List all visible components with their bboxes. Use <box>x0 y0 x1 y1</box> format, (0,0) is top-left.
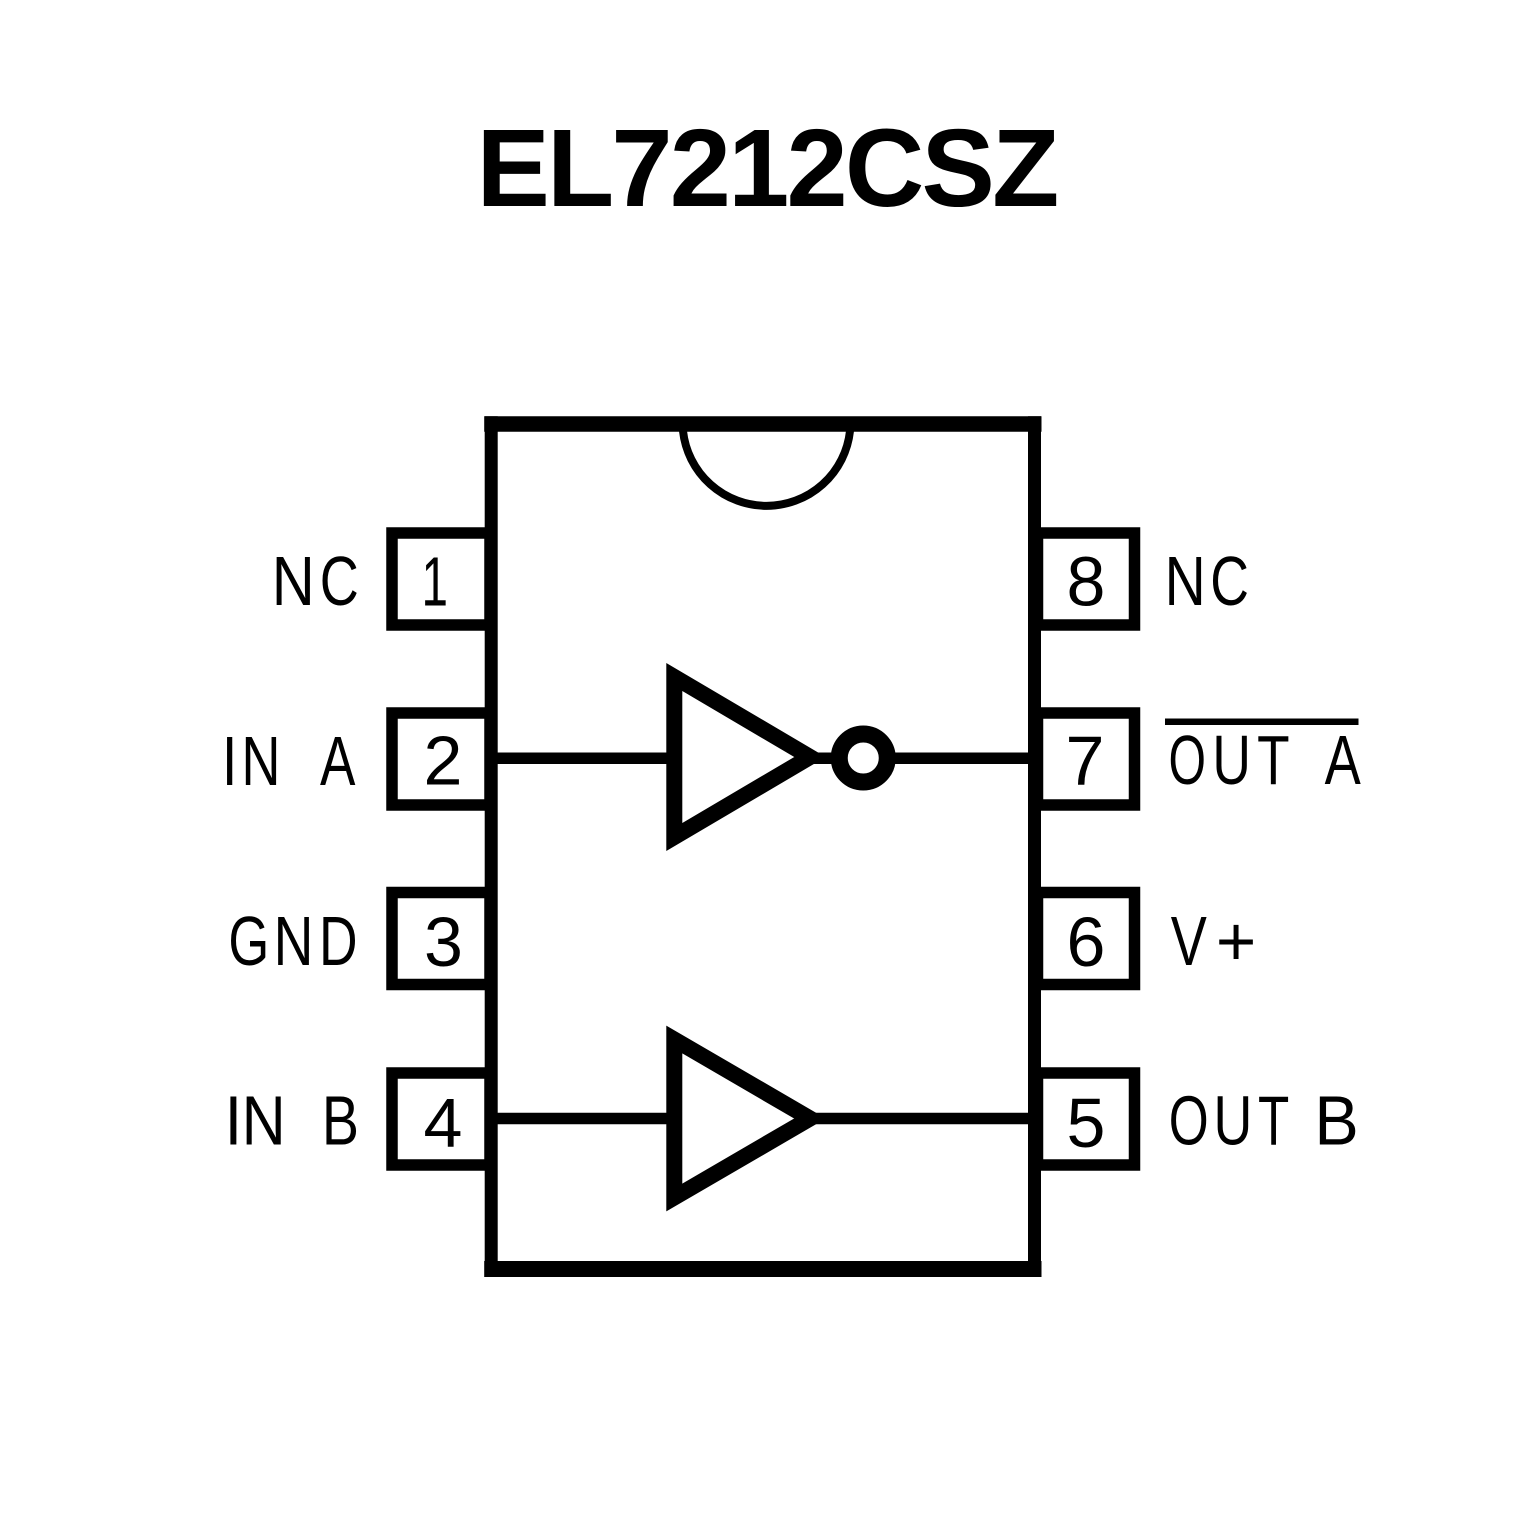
svg-text:+: + <box>1216 902 1256 980</box>
svg-text:C: C <box>320 542 359 620</box>
svg-text:6: 6 <box>1067 903 1106 981</box>
svg-text:V: V <box>1171 902 1207 980</box>
svg-text:N: N <box>274 903 314 981</box>
svg-text:N: N <box>241 722 280 800</box>
svg-text:3: 3 <box>424 903 463 981</box>
svg-text:T: T <box>1257 722 1289 800</box>
svg-text:A: A <box>320 723 356 801</box>
svg-text:G: G <box>228 903 269 981</box>
svg-text:I: I <box>225 1082 243 1160</box>
svg-text:O: O <box>1168 721 1205 799</box>
svg-text:B: B <box>1314 1082 1358 1160</box>
svg-text:8: 8 <box>1067 543 1106 621</box>
svg-text:2: 2 <box>424 722 463 800</box>
svg-text:1: 1 <box>422 542 448 620</box>
svg-text:7: 7 <box>1066 722 1105 800</box>
svg-text:A: A <box>1325 721 1361 799</box>
svg-text:EL7212CSZ: EL7212CSZ <box>476 107 1057 230</box>
svg-text:N: N <box>242 1082 286 1160</box>
svg-text:4: 4 <box>424 1084 463 1162</box>
svg-text:U: U <box>1214 1083 1253 1160</box>
svg-text:C: C <box>1210 543 1249 621</box>
svg-text:D: D <box>319 903 358 981</box>
svg-text:T: T <box>1258 1081 1289 1160</box>
svg-text:O: O <box>1169 1082 1209 1161</box>
svg-text:N: N <box>1165 541 1206 620</box>
svg-text:U: U <box>1212 722 1251 800</box>
svg-text:N: N <box>272 541 315 620</box>
svg-text:5: 5 <box>1067 1084 1106 1162</box>
svg-text:I: I <box>222 723 238 800</box>
svg-text:B: B <box>322 1083 359 1160</box>
